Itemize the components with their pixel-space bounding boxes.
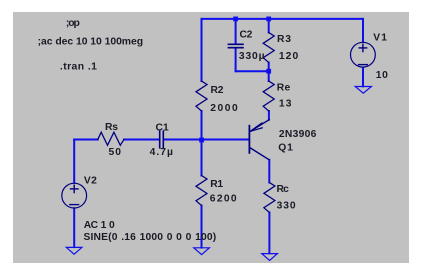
wire top rail from R2 column to V1 [202, 18, 364, 20]
wire input node to Rs [74, 139, 98, 141]
svg-text:C2: C2 [240, 30, 253, 41]
svg-text:Q1: Q1 [278, 142, 293, 153]
svg-text:R3: R3 [277, 34, 291, 45]
wire V1 bottom to ground [362, 68, 364, 87]
resistor R3 body [263, 33, 274, 63]
svg-text:V1: V1 [373, 33, 387, 44]
wire R3 top lead [268, 19, 270, 33]
svg-text:330µ: 330µ [239, 51, 265, 62]
wire left rail down from top rail to R2 [201, 19, 203, 81]
resistor Rc body [264, 183, 275, 213]
svg-text:AC 1 0: AC 1 0 [84, 220, 115, 231]
wire Rs to C1 [124, 139, 159, 141]
ground under Rc [262, 254, 278, 261]
svg-text:330: 330 [277, 201, 296, 212]
wire node to Re top [268, 71, 270, 81]
svg-text:;ac dec 10 10 100meg: ;ac dec 10 10 100meg [38, 37, 144, 48]
svg-text:Rc: Rc [277, 184, 290, 195]
voltage source V1 [351, 42, 376, 67]
junction node at C2 top on rail [233, 17, 238, 22]
resistor Re body [263, 81, 274, 111]
svg-text:R2: R2 [211, 85, 224, 96]
wire Q1 collector to Rc [268, 160, 270, 183]
capacitor C1 plates [160, 131, 164, 148]
wire R2 bottom to R1 top through node [201, 111, 203, 176]
wire left rail down to V2 [73, 140, 75, 183]
svg-text:6200: 6200 [210, 193, 237, 204]
wire V2 bottom to ground [73, 208, 75, 247]
wire V1 top drop [362, 19, 364, 42]
svg-text:50: 50 [109, 147, 122, 158]
svg-text:10: 10 [376, 70, 388, 81]
svg-text:120: 120 [279, 51, 299, 62]
svg-text:C1: C1 [156, 122, 169, 133]
wire C2 top lead [235, 19, 237, 44]
wire R3 bottom to node [268, 63, 270, 72]
svg-text:13: 13 [279, 99, 292, 110]
svg-text:Re: Re [277, 83, 291, 94]
svg-text:Rs: Rs [105, 122, 118, 133]
junction node at Q1 base / R2 R1 rail [199, 138, 204, 143]
wire Re bottom to Q1 emitter [268, 111, 270, 120]
junction node at R3 top on rail [266, 17, 271, 22]
svg-text:;op: ;op [66, 18, 80, 29]
resistor R1 body [196, 176, 207, 206]
svg-text:2N3906: 2N3906 [279, 129, 317, 140]
resistor Rs body [98, 132, 124, 145]
junction node at C2/R3 bottom [266, 69, 271, 74]
wire C2 bottom lead [235, 49, 237, 72]
svg-text:.tran .1: .tran .1 [60, 62, 97, 73]
svg-text:V2: V2 [84, 176, 97, 187]
voltage source V2 [62, 183, 87, 208]
capacitor C2 plates [228, 44, 243, 47]
wire R1 bottom to ground [201, 206, 203, 248]
ground under V2 [66, 247, 82, 254]
svg-text:SINE(0 .16 1000 0 0 0 100): SINE(0 .16 1000 0 0 0 100) [84, 232, 217, 243]
svg-text:4.7µ: 4.7µ [150, 147, 173, 158]
wire Rc bottom to ground [268, 213, 270, 254]
wire C2 to R3 bottom node [236, 70, 269, 72]
wire C1 to Q1 base [164, 139, 248, 141]
svg-text:2000: 2000 [210, 103, 238, 114]
transistor Q1 2N3906 [249, 120, 269, 160]
ground under V1 [355, 87, 371, 94]
ground under R1 [194, 248, 210, 255]
svg-text:R1: R1 [210, 179, 223, 190]
resistor R2 body [196, 81, 207, 111]
